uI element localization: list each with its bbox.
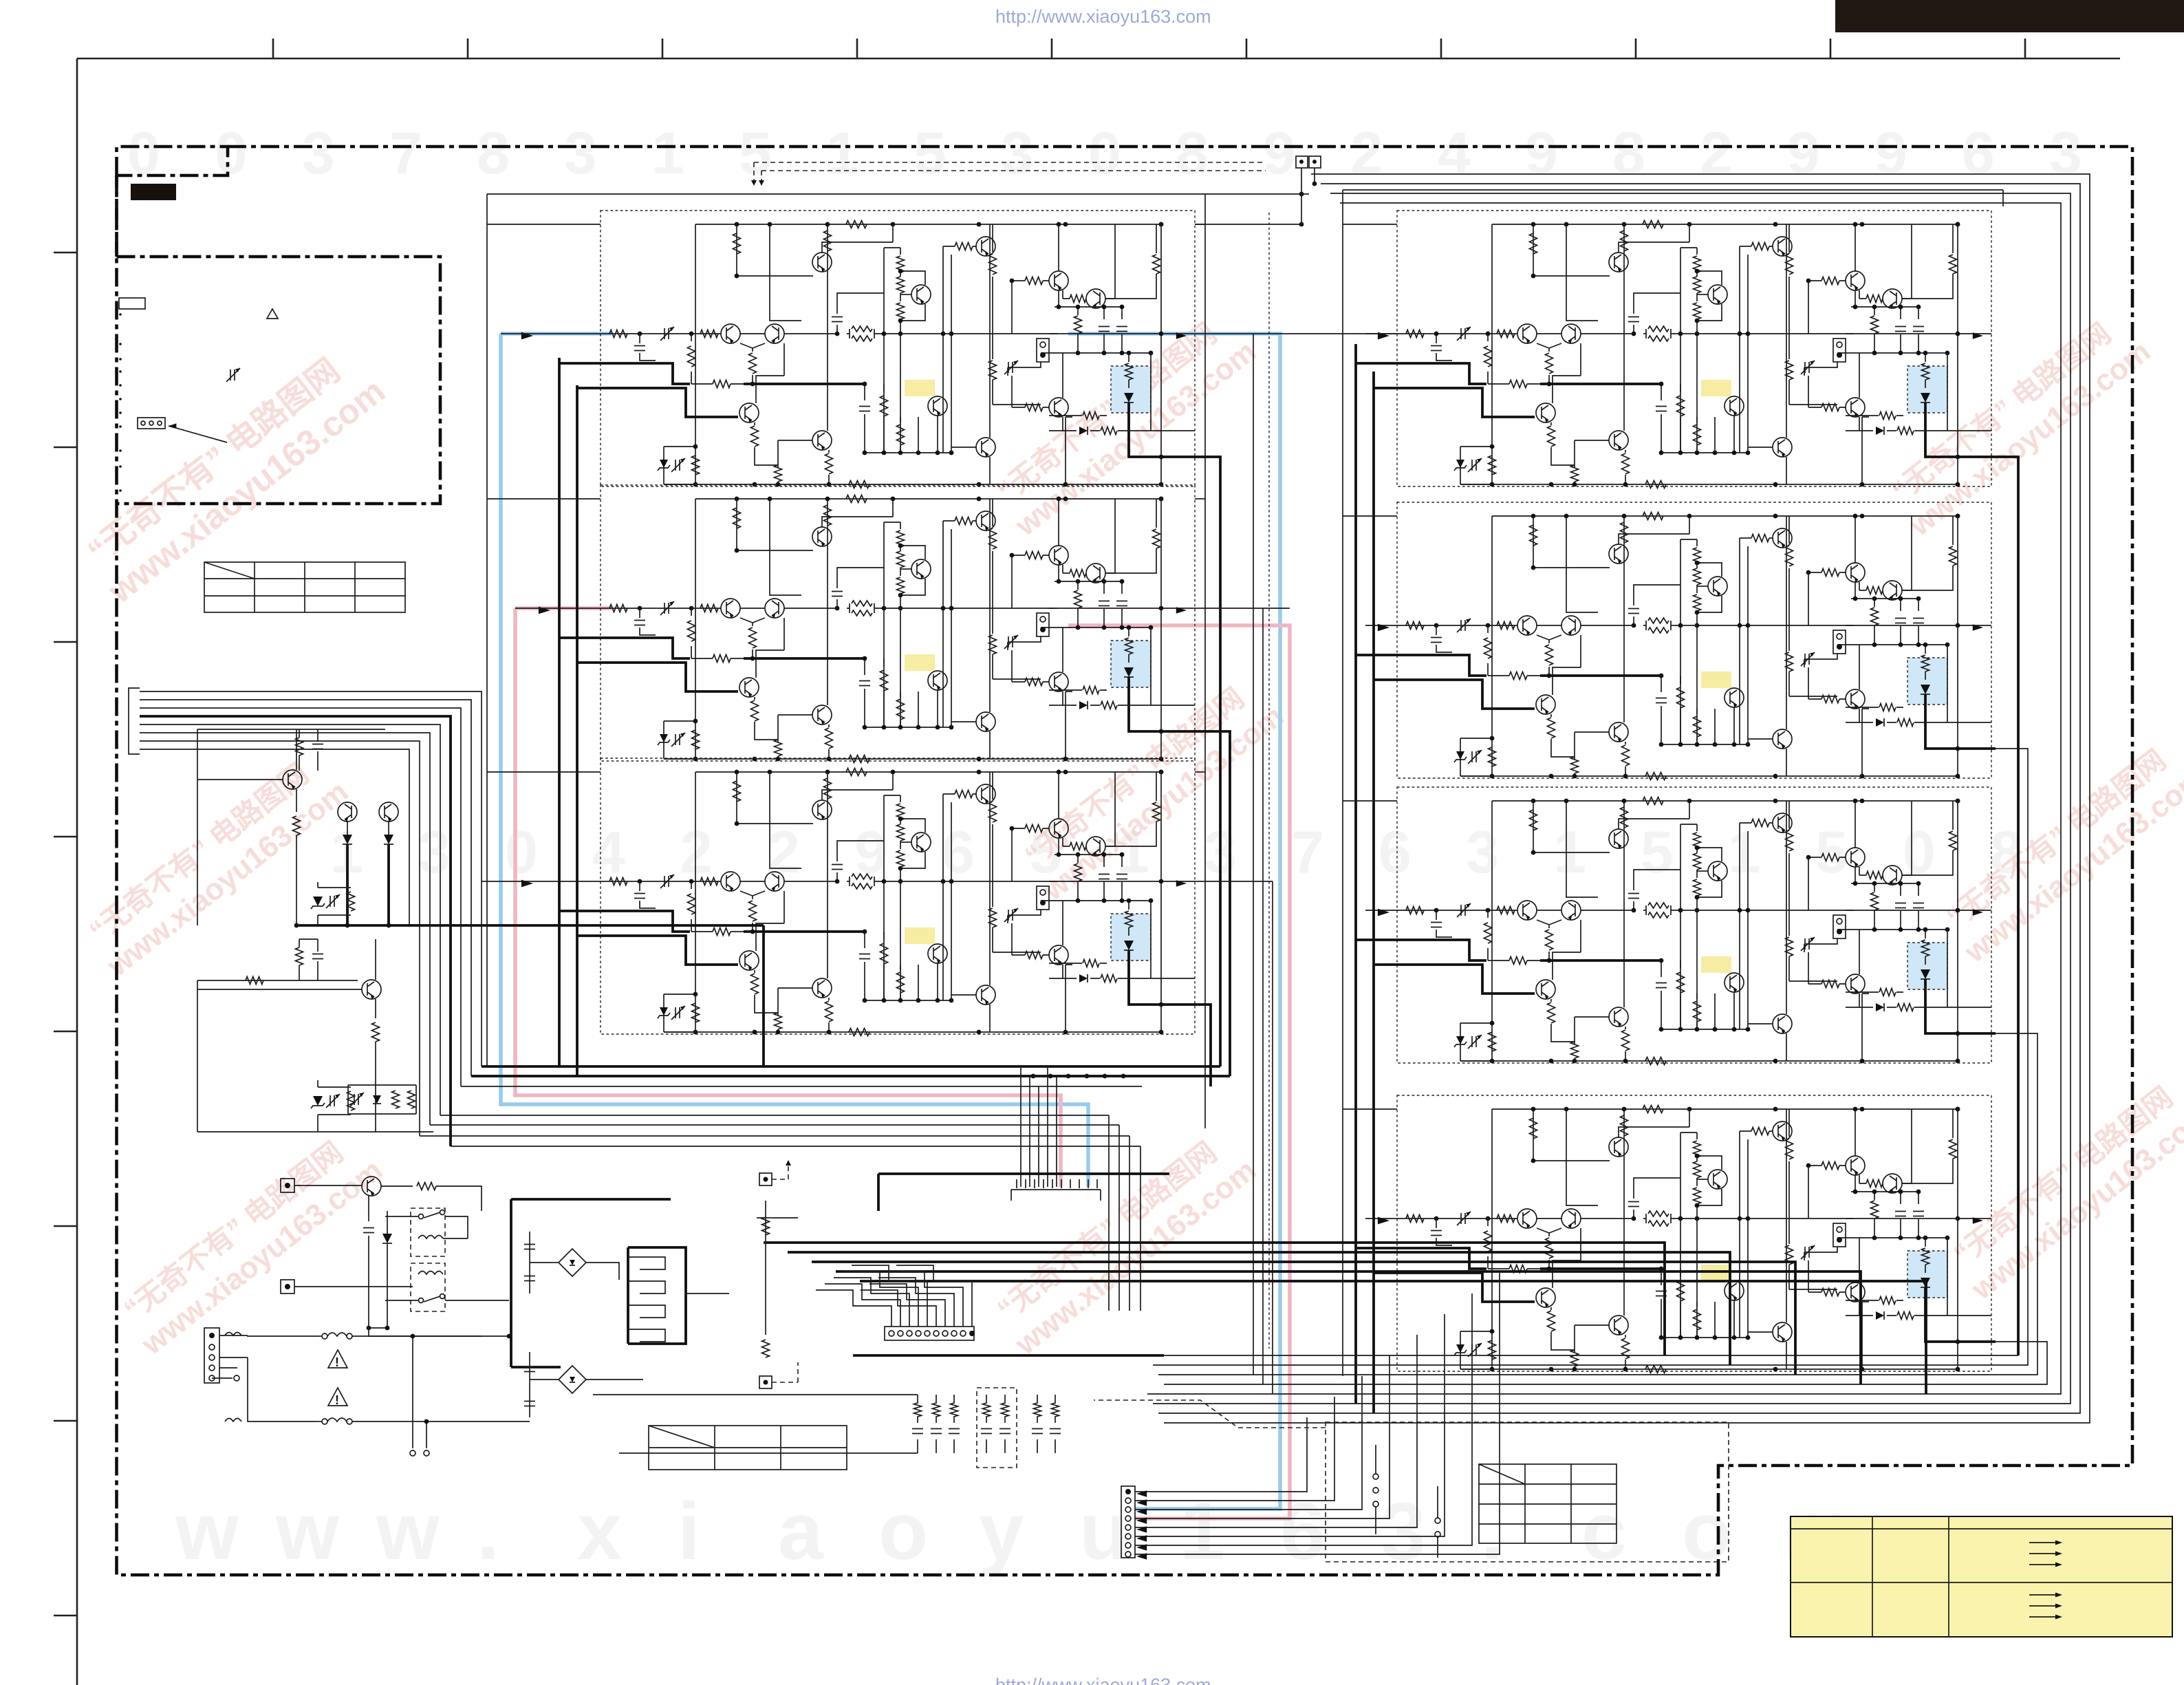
- fuse 2: [316, 1421, 322, 1422]
- switch circles in dashed box: [1373, 1474, 1378, 1479]
- terminal square mid-left A: [759, 1173, 772, 1185]
- warning triangle 1: [328, 1350, 347, 1368]
- svg-text:!: !: [335, 1355, 339, 1369]
- svg-text:i: i: [678, 1486, 700, 1577]
- frame tick marks left: [54, 253, 77, 1616]
- svg-text:w: w: [275, 1486, 340, 1577]
- svg-text:1: 1: [826, 120, 859, 186]
- transistor QP1: [283, 770, 302, 789]
- svg-text:a: a: [778, 1486, 824, 1577]
- svg-text:9: 9: [1525, 120, 1558, 186]
- svg-text:7: 7: [389, 120, 422, 186]
- protection bus drop: [762, 925, 765, 1066]
- amp block R1: [1397, 211, 1996, 489]
- svg-text:5: 5: [739, 120, 772, 186]
- svg-text:http://www.xiaoyu163.com: http://www.xiaoyu163.com: [995, 6, 1211, 27]
- svg-text:2: 2: [1700, 120, 1733, 186]
- svg-text:www.xiaoyu163.com: www.xiaoyu163.com: [1965, 1098, 2184, 1307]
- table T3 bottom right: [1479, 1464, 1617, 1543]
- fuse 1: [316, 1335, 322, 1337]
- right group side buses: [1356, 344, 1374, 1413]
- transistor QP2: [338, 802, 357, 822]
- watermark faint digits top row: [127, 120, 2082, 186]
- svg-text:0: 0: [505, 819, 538, 886]
- transformer: [627, 1247, 629, 1344]
- right column output drops: [1996, 457, 2018, 1355]
- resistor/cap row bottom middle: [918, 1395, 1055, 1453]
- rails for res/cap row: [593, 1395, 918, 1453]
- zener pair: [296, 835, 297, 925]
- dashed box around caps: [977, 1388, 1017, 1468]
- zener pair lower: [313, 1096, 323, 1106]
- connector boxes top: [1296, 156, 1308, 168]
- AC plug stubs: [413, 1336, 426, 1448]
- 8 pin connector: [1121, 1486, 1135, 1558]
- L1 top rail extension: [1195, 224, 1301, 225]
- svg-text:5: 5: [913, 120, 947, 186]
- warning triangle 2: [328, 1388, 347, 1406]
- pink watermarks: [74, 337, 392, 610]
- left side thick bus 1: [558, 358, 561, 1066]
- mid channel: left block outputs drop: [1199, 457, 1220, 1066]
- svg-text:3: 3: [1381, 1486, 1426, 1577]
- svg-text:9: 9: [1787, 120, 1820, 186]
- svg-text:3: 3: [564, 120, 597, 186]
- bridge rectifier 2: [559, 1366, 586, 1393]
- comb connector: [1011, 1190, 1101, 1201]
- harness bracket: [129, 688, 140, 754]
- watermark faint digits middle row: [330, 819, 2023, 886]
- thick bus band middle: [764, 1243, 1926, 1394]
- AC inlet connector: [204, 1328, 219, 1383]
- svg-text:http://www.xiaoyu163.com: http://www.xiaoyu163.com: [995, 1675, 1211, 1685]
- 10 pin connector: [885, 1327, 974, 1340]
- parts info triangle: [267, 309, 278, 319]
- transistor QP3: [379, 802, 398, 822]
- page frame left border: [76, 58, 78, 1685]
- table T2 bottom middle: [649, 1426, 847, 1470]
- svg-text:www.xiaoyu163.com: www.xiaoyu163.com: [100, 371, 392, 611]
- svg-text:8: 8: [477, 120, 510, 186]
- svg-text:x: x: [577, 1486, 623, 1577]
- bottom thick join: [296, 924, 764, 927]
- svg-text:.: .: [477, 1486, 499, 1577]
- nested bus rectangles right side: [1147, 174, 2090, 1423]
- svg-text:2: 2: [767, 819, 800, 886]
- psu cap + diode: [368, 1196, 369, 1221]
- parts info trimmer symbol: [230, 369, 235, 380]
- svg-text:o: o: [1682, 1486, 1731, 1577]
- svg-text:1: 1: [1728, 819, 1761, 886]
- psu transistor QS1: [362, 1177, 381, 1196]
- diodes under QP: [343, 835, 352, 844]
- svg-text:6: 6: [1962, 120, 1995, 186]
- parts info 3-hole connector: [138, 418, 165, 429]
- dotted channel divider: [1268, 213, 1270, 1349]
- amp block R3: [1397, 787, 1996, 1065]
- svg-text:c: c: [1581, 1486, 1627, 1577]
- left side thick bus 2: [576, 385, 579, 1076]
- parts info pointer line: [169, 426, 227, 442]
- protection circuit lower: [197, 980, 358, 1132]
- svg-text:9: 9: [1263, 120, 1296, 186]
- left group outer frame: [487, 194, 1309, 1128]
- title block (black): [1835, 0, 2184, 32]
- border tab top-left: [117, 147, 228, 175]
- input arrows right column: [1365, 333, 1397, 334]
- svg-text:w: w: [376, 1486, 440, 1577]
- parts info box: [117, 175, 441, 504]
- svg-text:3: 3: [1466, 819, 1499, 886]
- svg-text:6: 6: [1280, 1486, 1326, 1577]
- svg-text:.: .: [1481, 1486, 1504, 1577]
- blue signal trace: [501, 334, 1280, 1509]
- thick psu feed: [511, 1199, 671, 1367]
- svg-text:w: w: [175, 1486, 239, 1577]
- bridge rectifier 1: [559, 1249, 586, 1276]
- horizontal bus under left blocks: [482, 1065, 1220, 1068]
- svg-text:3: 3: [302, 120, 335, 186]
- svg-text:y: y: [979, 1486, 1024, 1577]
- psu terminal A: [281, 1179, 294, 1192]
- psu terminal B: [281, 1280, 294, 1294]
- svg-text:1: 1: [1180, 1486, 1225, 1577]
- dashed step line: [1094, 1400, 1326, 1428]
- between-column signal lines: [1195, 334, 1397, 881]
- amp block R2: [1397, 502, 1996, 780]
- svg-text:4: 4: [1438, 120, 1471, 186]
- thick drop to psu: [878, 1174, 1169, 1211]
- svg-text:7: 7: [1291, 819, 1324, 886]
- page frame top border: [77, 58, 2120, 60]
- diode cluster: [348, 1085, 416, 1114]
- svg-text:3: 3: [418, 819, 451, 886]
- pink signal trace: [515, 608, 1290, 1518]
- black label box: [131, 184, 176, 200]
- psu caps column: [529, 1232, 530, 1294]
- svg-text:8: 8: [1176, 120, 1209, 186]
- svg-text:3: 3: [2049, 120, 2082, 186]
- frame tick marks top: [273, 39, 2025, 58]
- watermark giant bottom text: [175, 1486, 1855, 1577]
- relay 2: [411, 1263, 445, 1311]
- input lines into blocks: [501, 333, 601, 334]
- dashed link lines top: [754, 162, 1266, 171]
- svg-text:4: 4: [592, 819, 625, 886]
- parts info dot list: [119, 313, 122, 316]
- amp block L3: [601, 758, 1199, 1036]
- svg-text:5: 5: [1815, 819, 1848, 886]
- line filter coils: [225, 1333, 241, 1336]
- svg-text:1: 1: [651, 120, 684, 186]
- svg-text:6: 6: [942, 819, 975, 886]
- table T1 left: [204, 562, 405, 612]
- comb feed drops: [1021, 1066, 1057, 1187]
- svg-text:8: 8: [1612, 120, 1645, 186]
- parts info small rect: [119, 298, 145, 309]
- svg-text:2: 2: [1350, 120, 1383, 186]
- protection circuit upper: [197, 729, 385, 925]
- svg-text:!: !: [335, 1393, 339, 1407]
- dashed box bottom right: [1326, 1422, 1729, 1562]
- svg-text:2: 2: [680, 819, 713, 886]
- svg-text:3: 3: [1001, 120, 1034, 186]
- svg-text:6: 6: [1378, 819, 1412, 886]
- svg-text:5: 5: [1641, 819, 1674, 886]
- svg-text:0: 0: [1088, 120, 1121, 186]
- svg-text:o: o: [878, 1486, 928, 1577]
- amp block R4: [1397, 1095, 1996, 1373]
- amp block L1: [601, 211, 1199, 489]
- terminal square mid-left B: [759, 1376, 772, 1388]
- yellow table: [1791, 1516, 2172, 1637]
- trace arrows: [521, 332, 533, 340]
- relay 1: [411, 1208, 445, 1256]
- branches into left blocks: [559, 362, 601, 365]
- svg-text:9: 9: [1874, 120, 1907, 186]
- transistor QP4: [362, 980, 381, 999]
- dash-dot schematic border: [117, 147, 2133, 1575]
- amp block L2: [601, 485, 1199, 763]
